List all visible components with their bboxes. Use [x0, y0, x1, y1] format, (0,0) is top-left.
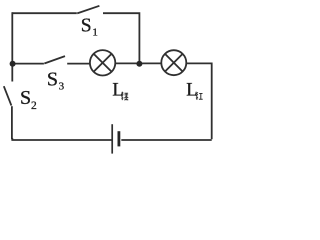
svg-text:S: S	[47, 68, 58, 90]
label L-red subscript Chinese "red" glyph	[196, 92, 203, 100]
wire between lamps through junction node A	[115, 62, 161, 64]
node B junction dot on left wire	[10, 61, 16, 67]
switch S1 blade	[77, 6, 99, 14]
battery cell long positive plate	[111, 124, 113, 153]
svg-text:3: 3	[59, 81, 65, 93]
wire lamp L-red to right side with corner down	[186, 63, 211, 139]
svg-text:S: S	[20, 87, 31, 109]
wire top-right segment with corner down to junction node A	[103, 13, 139, 63]
switch S3 blade	[44, 56, 65, 63]
svg-text:1: 1	[92, 26, 98, 38]
wire left vertical lower (S2 lower contact to bottom-left corner)	[11, 106, 13, 139]
switch S2 blade	[4, 86, 12, 105]
battery cell short negative plate	[118, 131, 121, 146]
wire middle branch (node B to switch S3)	[12, 63, 44, 65]
lamp L-green cross	[94, 54, 112, 72]
lamp L-red cross	[165, 54, 183, 72]
wire bottom left (battery to bottom-left corner)	[12, 138, 112, 140]
lamp L-red circle	[161, 50, 186, 75]
label L-green subscript Chinese "green" glyph	[121, 93, 128, 101]
wire top (left segment from top-left corner to switch S1)	[12, 12, 77, 14]
lamp L-green circle	[90, 50, 115, 75]
wire left vertical (top-left corner down to switch S2 upper contact)	[11, 12, 13, 81]
wire bottom right (right corner to battery positive)	[121, 139, 211, 141]
wire S3 to lamp L-green	[67, 63, 90, 65]
node A junction dot between lamps	[136, 61, 142, 67]
svg-text:S: S	[81, 16, 92, 37]
svg-text:L: L	[186, 81, 197, 101]
svg-text:2: 2	[31, 100, 37, 112]
